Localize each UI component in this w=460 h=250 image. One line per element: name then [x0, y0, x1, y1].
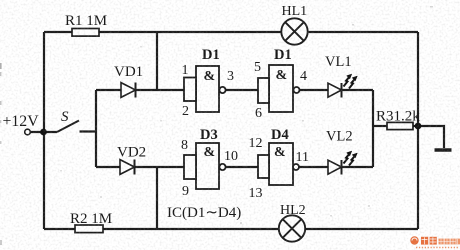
wire VL1 to right drop	[342, 89, 374, 91]
watermark logo icon	[410, 236, 418, 244]
node junction +12V	[40, 129, 47, 136]
wire left rail	[43, 32, 45, 229]
gate D3 body	[184, 143, 226, 189]
LED VL1 arrows	[344, 74, 358, 89]
wire top rail	[44, 31, 418, 33]
wire R3 right lead	[412, 125, 418, 127]
node junction R3/ground	[415, 123, 422, 130]
wire VD2 row	[96, 166, 184, 168]
wire R3 left lead	[373, 125, 388, 127]
lamp HL1	[281, 18, 307, 44]
wire ground branch	[418, 126, 444, 148]
gate D1 body	[184, 66, 226, 112]
diode VD1	[121, 83, 136, 98]
wire VL1/VL2 vertical	[372, 90, 374, 167]
op terminal +12V	[25, 129, 31, 135]
resistor R2	[75, 225, 103, 233]
LED VL1	[328, 83, 342, 98]
wire +12V terminal to junction	[30, 131, 57, 133]
lamp HL2	[279, 215, 305, 241]
wire switch to branch	[80, 130, 97, 132]
wire VD1 row	[96, 89, 184, 91]
LED VL2	[328, 160, 342, 175]
resistor R1	[72, 29, 99, 37]
gate D2 body	[258, 65, 300, 112]
watermark big characters	[421, 237, 437, 245]
wire D2 out to VL1	[300, 89, 330, 91]
watermark small caption row	[416, 247, 459, 249]
switch S blade	[57, 121, 79, 133]
wire bottom rail	[44, 228, 418, 230]
wire D1 out to D2 in	[226, 89, 259, 91]
wire D4 out to VL2	[299, 166, 329, 168]
wire switch branch vertical	[95, 90, 97, 167]
resistor R3	[387, 122, 413, 129]
wire D3 out to D4 in	[226, 166, 259, 168]
LED VL2 arrows	[344, 151, 358, 166]
wire VL2 to right drop	[342, 166, 374, 168]
wire right rail	[417, 32, 419, 229]
watermark small characters	[439, 239, 460, 245]
gate D4 body	[258, 143, 299, 185]
ground	[435, 148, 452, 151]
wire VD2 node to bottom rail drop	[156, 167, 158, 229]
wire R1 to VD1 node drop	[156, 32, 158, 90]
diode VD2	[120, 160, 135, 175]
